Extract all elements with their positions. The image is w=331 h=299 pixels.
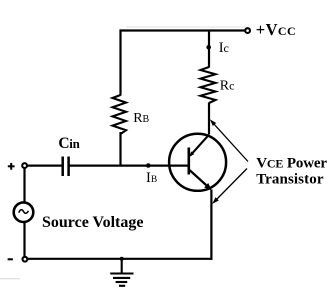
- wire base right of capacitor: [70, 165, 189, 167]
- wire RB bottom: [119, 132, 121, 166]
- node ground junction: [120, 257, 124, 261]
- wire RB branch top: [119, 30, 121, 96]
- label +: [8, 163, 15, 170]
- annotation arrow emitter: [212, 169, 247, 204]
- resistor RC: [201, 67, 216, 103]
- wire collector top: [208, 30, 210, 68]
- terminal +VCC: [245, 28, 250, 33]
- svg-text:Source Voltage: Source Voltage: [42, 214, 143, 231]
- wire left vertical bottom: [23, 223, 25, 257]
- transistor Q1: [169, 134, 226, 191]
- resistor RB: [113, 95, 127, 134]
- annotation arrow collector: [210, 119, 248, 161]
- wire base (mid rail): [28, 165, 63, 167]
- node IC: [206, 45, 211, 50]
- wire emitter: [210, 190, 212, 260]
- svg-text:VCE Power: VCE Power: [256, 155, 327, 171]
- ground: [110, 259, 133, 286]
- wire top rail: [120, 29, 245, 31]
- svg-text:Cin: Cin: [58, 135, 80, 152]
- wire bottom rail: [28, 258, 213, 260]
- wire left vertical top: [23, 169, 25, 203]
- svg-text:Transistor: Transistor: [256, 172, 324, 188]
- source V1: [14, 202, 34, 222]
- label -: [8, 258, 13, 260]
- node IB: [146, 163, 151, 168]
- capacitor Cin: [61, 157, 64, 177]
- wire collector bottom: [208, 103, 210, 135]
- svg-text:Ic: Ic: [219, 40, 229, 56]
- svg-text:RB: RB: [133, 111, 149, 126]
- svg-text:Rc: Rc: [220, 78, 235, 93]
- terminal - input: [23, 257, 28, 262]
- terminal + input: [22, 163, 27, 168]
